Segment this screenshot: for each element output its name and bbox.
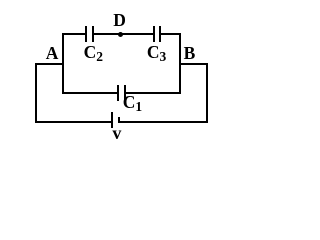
wire right outer vertical [206,63,208,123]
wire right inner vertical [179,33,181,94]
wire middle left segment (A to C1) [62,92,117,94]
wire C2 to C3 through node D [94,33,153,35]
wire C3 to B corner [161,33,181,35]
label C3 [147,44,166,62]
wire top-left segment (A corner to C2) [62,33,85,35]
battery V long plate [111,112,113,128]
wire bottom left segment (to battery) [35,121,111,123]
wire node A stub [35,63,64,65]
label V battery [112,124,121,142]
capacitor C1 [117,85,119,100]
capacitor C3 [153,26,155,41]
node D junction dot [118,32,123,37]
wire node B stub [179,63,208,65]
wire bottom right segment (battery to B) [120,121,208,123]
wire left inner vertical [62,33,64,94]
wire left outer vertical [35,63,37,123]
label C2 [84,44,103,62]
node label D [113,12,126,30]
battery V short plate [118,117,120,123]
capacitor C2 [85,26,87,41]
wire middle right segment (C1 to B) [126,92,181,94]
node label B [184,45,196,63]
node label A [46,45,59,63]
label C1 [123,94,142,112]
